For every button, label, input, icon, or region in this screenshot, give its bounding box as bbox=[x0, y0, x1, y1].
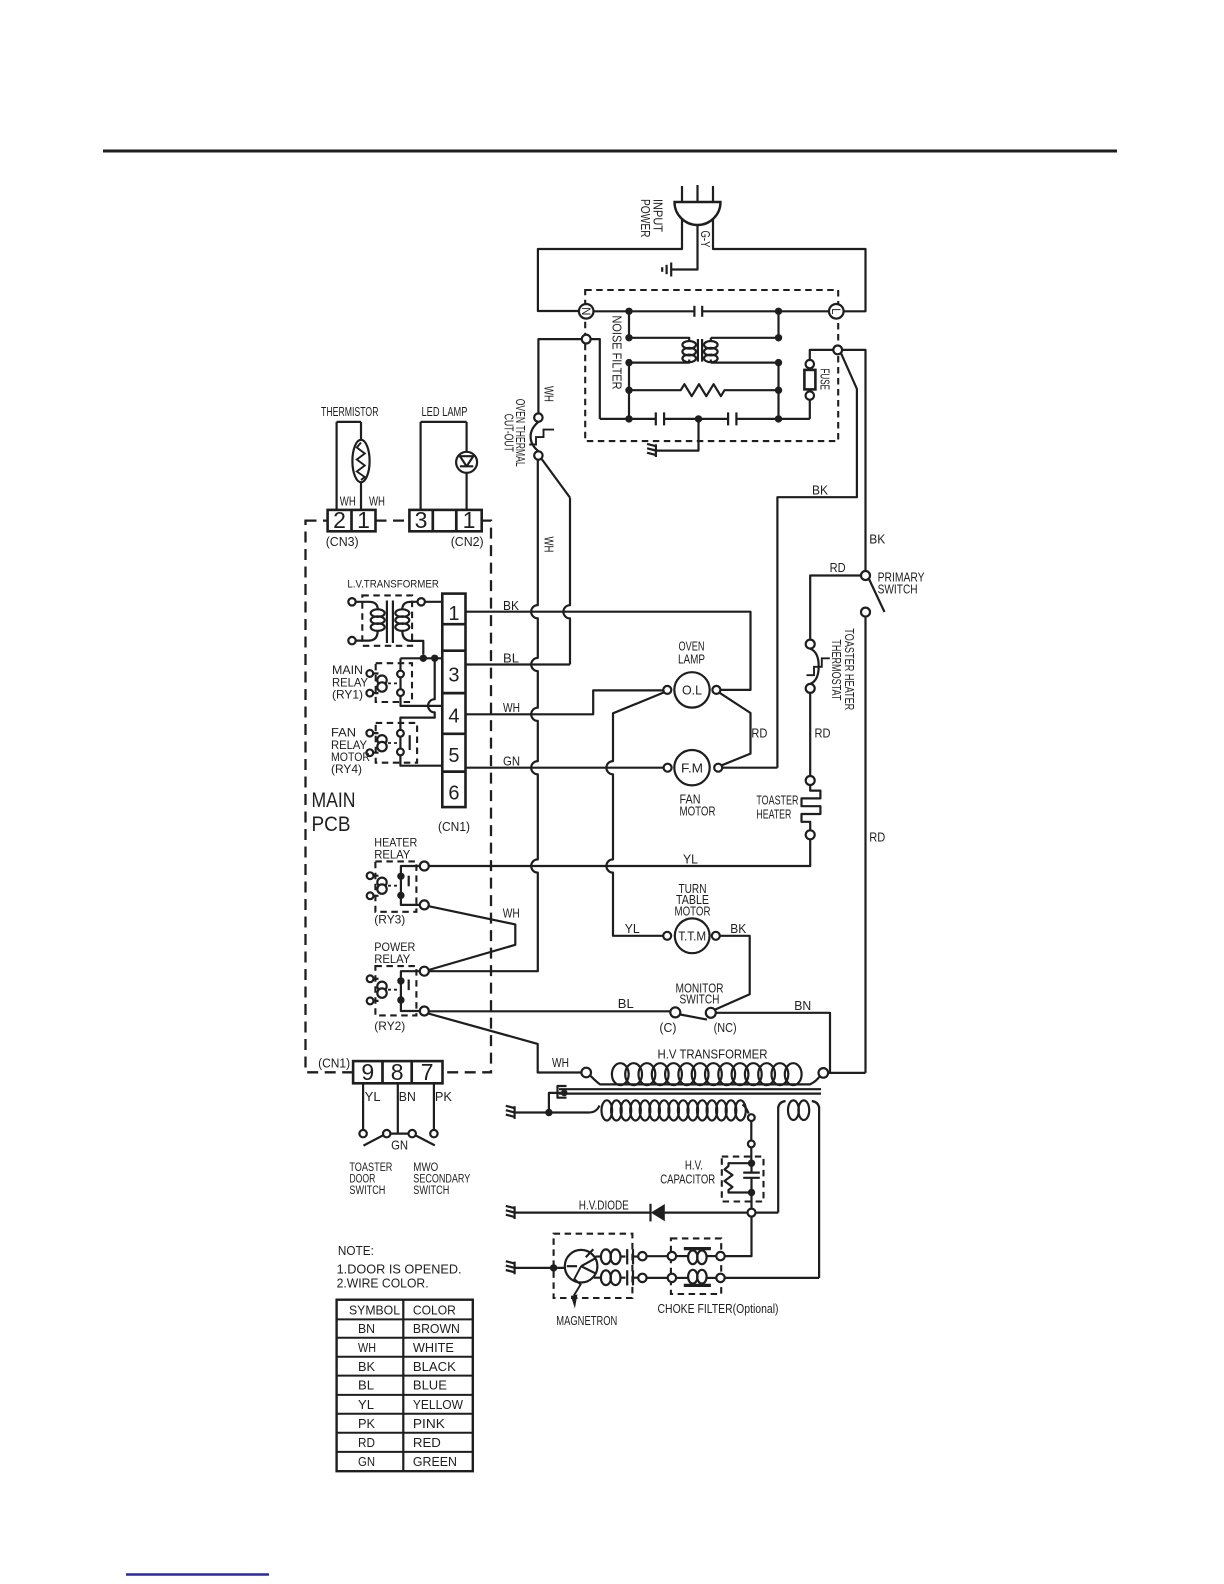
wire color table bbox=[337, 1300, 473, 1472]
choke filter top inductor bbox=[676, 1249, 716, 1265]
wire YL heater relay to toaster heater bbox=[429, 839, 810, 866]
svg-text:O.L: O.L bbox=[682, 683, 702, 698]
svg-text:BL: BL bbox=[618, 996, 634, 1011]
power relay top terminal bbox=[420, 967, 429, 976]
svg-text:BK: BK bbox=[730, 921, 746, 936]
secondary output terminals bbox=[748, 1114, 755, 1121]
wire node to fan relay contact (hops pin4 wire) bbox=[400, 658, 434, 730]
wire RD primary switch to thermostat bbox=[810, 576, 861, 640]
choke filter bottom inductor bbox=[676, 1270, 716, 1286]
svg-text:BK: BK bbox=[503, 598, 519, 613]
wire junction down to choke filter bbox=[725, 1217, 752, 1257]
noise filter dashed box bbox=[585, 290, 838, 441]
svg-text:NOTE:: NOTE: bbox=[338, 1243, 374, 1258]
node dots row1 bbox=[625, 308, 632, 315]
svg-text:WH: WH bbox=[503, 700, 520, 715]
svg-text:(RY2): (RY2) bbox=[374, 1019, 405, 1033]
svg-text:MAIN: MAIN bbox=[312, 788, 356, 812]
HV capacitor plates bbox=[743, 1163, 760, 1192]
svg-text:RED: RED bbox=[413, 1435, 441, 1450]
svg-text:1: 1 bbox=[463, 507, 476, 533]
svg-text:GN: GN bbox=[391, 1138, 408, 1153]
svg-text:WH: WH bbox=[503, 906, 520, 921]
wire oven lamp to turntable (vertical with hops) bbox=[606, 692, 665, 936]
wire GN pin5 to fan motor bbox=[466, 767, 664, 769]
svg-text:SWITCH: SWITCH bbox=[878, 581, 918, 596]
svg-text:(CN3): (CN3) bbox=[326, 534, 359, 549]
svg-text:BLUE: BLUE bbox=[413, 1378, 447, 1393]
heater relay lower terminal bbox=[420, 900, 429, 909]
wire choke bottom to filament right bbox=[725, 1277, 819, 1279]
wire L-node to primary switch (BK) bbox=[842, 350, 865, 571]
monitor switch bbox=[670, 1007, 716, 1019]
wire bottom row center to chassis ground bbox=[656, 419, 698, 451]
svg-text:MAGNETRON: MAGNETRON bbox=[556, 1313, 617, 1328]
wire WH link heater relay to power relay bbox=[429, 906, 516, 970]
svg-text:1: 1 bbox=[357, 507, 370, 533]
chassis ground noise filter bbox=[647, 444, 656, 457]
terminal L bbox=[829, 304, 844, 319]
svg-text:(RY4): (RY4) bbox=[331, 762, 362, 776]
wire RD thermostat to toaster heater bbox=[809, 693, 811, 776]
svg-text:HEATER: HEATER bbox=[756, 806, 791, 821]
wire LVT to pin1 bbox=[425, 601, 442, 603]
noise filter bottom capacitors row bbox=[600, 412, 810, 425]
svg-text:WH: WH bbox=[369, 494, 385, 509]
svg-text:4: 4 bbox=[448, 706, 459, 728]
svg-text:BK: BK bbox=[869, 531, 885, 546]
svg-text:CHOKE FILTER(Optional): CHOKE FILTER(Optional) bbox=[658, 1301, 779, 1316]
turn table motor T.T.M bbox=[663, 918, 720, 953]
chassis ground (magnetron) bbox=[506, 1261, 515, 1274]
svg-text:WH: WH bbox=[358, 1340, 376, 1355]
wire WH pin4 to oven lamp left bbox=[466, 690, 664, 714]
svg-text:CAPACITOR: CAPACITOR bbox=[660, 1172, 715, 1187]
svg-text:LAMP: LAMP bbox=[678, 651, 705, 666]
svg-text:WH: WH bbox=[541, 386, 556, 402]
wire L-node diagonal to toaster heater feed bbox=[777, 353, 857, 768]
wire node to pin3 bbox=[401, 657, 443, 659]
svg-text:1: 1 bbox=[448, 603, 459, 625]
svg-text:TOASTER: TOASTER bbox=[756, 793, 798, 808]
ground (mains earth) bbox=[662, 263, 671, 277]
wire BL pin3 bbox=[466, 663, 571, 665]
label INPUT POWER (rotated) bbox=[638, 199, 666, 238]
wire left column row1-row2 bbox=[628, 311, 630, 338]
svg-text:(NC): (NC) bbox=[714, 1020, 737, 1035]
magnetron tube bbox=[565, 1249, 598, 1308]
svg-text:COLOR: COLOR bbox=[413, 1302, 456, 1317]
svg-text:RELAY: RELAY bbox=[374, 848, 410, 862]
svg-text:YL: YL bbox=[625, 921, 640, 936]
svg-text:THERMISTOR: THERMISTOR bbox=[321, 404, 379, 419]
svg-text:DOOR: DOOR bbox=[349, 1174, 375, 1186]
thermistor wires bbox=[337, 422, 361, 510]
led lamp wires bbox=[421, 422, 467, 510]
wire RD oven lamp to fan motor bbox=[720, 693, 751, 765]
svg-text:BROWN: BROWN bbox=[413, 1321, 460, 1336]
svg-text:7: 7 bbox=[421, 1059, 434, 1085]
diode row junction bbox=[748, 1209, 756, 1217]
svg-text:(CN1): (CN1) bbox=[438, 819, 470, 834]
wire BN monitor NC to HV transformer bbox=[716, 1013, 830, 1073]
led lamp symbol bbox=[456, 452, 477, 473]
magnetron heater terminals bbox=[638, 1252, 646, 1260]
thermistor body bbox=[352, 440, 369, 482]
toaster door switch bbox=[359, 1130, 390, 1146]
svg-text:(C): (C) bbox=[659, 1020, 676, 1035]
svg-text:BK: BK bbox=[358, 1359, 375, 1374]
svg-text:GN: GN bbox=[358, 1454, 375, 1469]
top rule bbox=[103, 150, 1117, 153]
svg-text:WH: WH bbox=[541, 537, 556, 553]
svg-text:2: 2 bbox=[333, 507, 346, 533]
svg-text:GREEN: GREEN bbox=[413, 1454, 457, 1469]
connector CN3 bbox=[326, 507, 376, 549]
wire N-node to oven thermal cutout bbox=[538, 339, 581, 413]
wire BK pin1 to oven lamp bbox=[466, 612, 751, 690]
svg-text:LED LAMP: LED LAMP bbox=[422, 404, 468, 419]
fuse bbox=[804, 350, 833, 419]
GN common bar bbox=[390, 1132, 408, 1134]
wire columns row3-row4-row5 bbox=[628, 363, 630, 419]
mwo secondary switch bbox=[409, 1130, 438, 1146]
svg-text:3: 3 bbox=[448, 665, 459, 687]
wires magnetron to choke filter bbox=[647, 1256, 668, 1278]
svg-text:PK: PK bbox=[358, 1416, 375, 1431]
svg-text:F.M: F.M bbox=[681, 760, 703, 775]
svg-text:3: 3 bbox=[415, 507, 428, 533]
svg-text:SWITCH: SWITCH bbox=[413, 1185, 449, 1197]
svg-text:GN: GN bbox=[503, 754, 520, 769]
wire N-node to bottom row bbox=[591, 339, 600, 419]
svg-text:RD: RD bbox=[751, 726, 767, 741]
svg-text:BK: BK bbox=[812, 483, 828, 498]
fan motor F.M bbox=[664, 750, 723, 785]
svg-text:WHITE: WHITE bbox=[413, 1340, 454, 1355]
svg-text:PCB: PCB bbox=[312, 812, 351, 836]
fan relay RY4 bbox=[366, 723, 442, 766]
svg-text:SWITCH: SWITCH bbox=[680, 992, 720, 1007]
svg-text:PINK: PINK bbox=[413, 1416, 445, 1431]
magnetron filament row1 bbox=[596, 1249, 639, 1264]
wire pin8 to GN bar bbox=[397, 1083, 399, 1133]
svg-text:BLACK: BLACK bbox=[413, 1359, 456, 1374]
svg-text:RELAY: RELAY bbox=[374, 952, 410, 966]
svg-text:FUSE: FUSE bbox=[818, 369, 833, 391]
oven thermal cut-out bbox=[529, 413, 570, 497]
HV filament winding bbox=[778, 1100, 819, 1278]
svg-text:9: 9 bbox=[361, 1059, 374, 1085]
wire ground to magnetron bbox=[515, 1267, 565, 1269]
svg-text:PK: PK bbox=[435, 1089, 452, 1104]
svg-text:BN: BN bbox=[399, 1089, 416, 1104]
wire fan motor to toaster heater feed bbox=[722, 767, 777, 769]
svg-text:THERMOSTAT: THERMOSTAT bbox=[829, 639, 844, 700]
svg-text:YL: YL bbox=[683, 852, 698, 867]
toaster heater element bbox=[802, 776, 821, 839]
svg-text:BN: BN bbox=[794, 998, 811, 1013]
svg-text:BL: BL bbox=[358, 1378, 374, 1393]
svg-text:RD: RD bbox=[358, 1435, 375, 1450]
power relay bottom terminal bbox=[420, 1007, 429, 1016]
chassis ground (HV diode) bbox=[506, 1206, 515, 1219]
svg-text:MWO: MWO bbox=[413, 1162, 438, 1174]
svg-text:CUT-OUT: CUT-OUT bbox=[502, 414, 517, 452]
svg-text:1.DOOR IS OPENED.: 1.DOOR IS OPENED. bbox=[337, 1262, 462, 1277]
svg-text:POWER: POWER bbox=[638, 199, 653, 238]
L.V. transformer dashed box bbox=[362, 595, 412, 645]
svg-text:L.V.TRANSFORMER: L.V.TRANSFORMER bbox=[347, 579, 439, 591]
heater relay RY3 bbox=[367, 861, 420, 911]
oven lamp O.L bbox=[663, 672, 720, 707]
terminal node on dashed edge (L side) bbox=[833, 346, 842, 355]
svg-text:(RY1): (RY1) bbox=[332, 688, 363, 702]
svg-text:RD: RD bbox=[830, 560, 846, 575]
magnetron dashed box bbox=[554, 1234, 633, 1298]
primary switch bbox=[861, 571, 885, 1073]
svg-text:T.T.M: T.T.M bbox=[678, 929, 706, 943]
terminal N bbox=[579, 304, 594, 319]
svg-text:TOASTER: TOASTER bbox=[349, 1162, 392, 1174]
svg-text:RD: RD bbox=[815, 726, 831, 741]
wire WH power relay to HV transformer primary bbox=[428, 1014, 581, 1073]
svg-text:NOISE FILTER: NOISE FILTER bbox=[610, 316, 625, 390]
svg-text:BL: BL bbox=[503, 650, 519, 665]
noise filter row1 capacitor C-line bbox=[593, 306, 829, 317]
wire WH power relay to oven thermal cutout (vertical with hops) bbox=[429, 460, 538, 972]
L.V. transformer terminals bbox=[348, 598, 355, 605]
svg-text:5: 5 bbox=[448, 745, 459, 767]
wire BL power relay to monitor switch C bbox=[429, 1010, 671, 1012]
chassis ground (HV secondary) bbox=[506, 1106, 515, 1119]
HV capacitor dashed box bbox=[722, 1157, 764, 1202]
noise filter common-mode choke bbox=[629, 338, 779, 363]
node dots bbox=[420, 655, 427, 662]
noise filter resistor row bbox=[629, 384, 779, 396]
HV transformer primary terminals bbox=[581, 1068, 591, 1078]
wire pin7 to mwo switch bbox=[433, 1083, 435, 1130]
main relay RY1 bbox=[366, 658, 442, 706]
terminal node on dashed edge (N side) bbox=[582, 335, 591, 344]
svg-text:2.WIRE COLOR.: 2.WIRE COLOR. bbox=[337, 1276, 429, 1291]
HV capacitor bleeder resistor bbox=[725, 1163, 752, 1192]
svg-text:SECONDARY: SECONDARY bbox=[413, 1174, 470, 1186]
svg-text:MOTOR: MOTOR bbox=[675, 903, 711, 918]
main PCB dashed box bbox=[306, 521, 492, 1073]
wire primary right to RD vertical bbox=[828, 1072, 865, 1074]
input power plug bbox=[675, 185, 721, 225]
svg-text:RD: RD bbox=[869, 829, 885, 844]
svg-text:YELLOW: YELLOW bbox=[413, 1397, 464, 1412]
HV diode bbox=[515, 1204, 748, 1222]
wire cap to diode row bbox=[750, 1193, 752, 1209]
svg-text:SYMBOL: SYMBOL bbox=[349, 1302, 400, 1317]
HV transformer secondary winding bbox=[549, 1100, 749, 1120]
wire core to chassis ground bbox=[515, 1093, 564, 1113]
bottom blue rule bbox=[126, 1573, 269, 1576]
wire plug left to N side bbox=[538, 220, 682, 312]
toaster heater thermostat bbox=[806, 640, 830, 693]
svg-text:8: 8 bbox=[391, 1059, 404, 1085]
connector CN1 (bottom 9 8 7) bbox=[353, 1059, 442, 1085]
svg-text:(RY3): (RY3) bbox=[374, 912, 405, 926]
svg-text:H.V TRANSFORMER: H.V TRANSFORMER bbox=[658, 1047, 768, 1062]
heater relay output terminal bbox=[420, 862, 429, 871]
magnetron filament row2 bbox=[594, 1270, 638, 1285]
wire TTM to monitor switch NC bbox=[714, 936, 750, 1010]
HV transformer primary winding bbox=[590, 1063, 819, 1085]
choke filter dashed box bbox=[671, 1238, 721, 1294]
node dots row2/row3 bbox=[625, 334, 632, 341]
svg-text:(CN1): (CN1) bbox=[318, 1056, 350, 1071]
wire plug right to L side bbox=[713, 220, 866, 312]
svg-text:H.V.DIODE: H.V.DIODE bbox=[579, 1197, 629, 1212]
wire cutout blade to BL pin3 (hops BK) bbox=[563, 498, 570, 665]
svg-text:N: N bbox=[579, 307, 591, 315]
power relay RY2 bbox=[367, 966, 420, 1015]
connector CN2 bbox=[409, 507, 483, 549]
svg-text:L: L bbox=[829, 308, 841, 315]
core ground node bbox=[561, 1090, 568, 1097]
svg-text:MOTOR: MOTOR bbox=[680, 804, 716, 819]
HV transformer core bbox=[558, 1086, 822, 1098]
svg-text:YL: YL bbox=[358, 1397, 374, 1412]
connector CN1 (top) bbox=[442, 594, 465, 808]
svg-text:G-Y: G-Y bbox=[698, 231, 713, 248]
svg-text:6: 6 bbox=[448, 783, 459, 805]
svg-text:(CN2): (CN2) bbox=[451, 534, 484, 549]
wire G-Y to ground bbox=[672, 225, 698, 270]
svg-text:SWITCH: SWITCH bbox=[349, 1185, 385, 1197]
svg-text:BN: BN bbox=[358, 1321, 375, 1336]
svg-text:YL: YL bbox=[365, 1089, 381, 1104]
wire pin9 to toaster door switch bbox=[362, 1083, 364, 1130]
svg-text:WH: WH bbox=[552, 1055, 569, 1070]
svg-text:H.V.: H.V. bbox=[685, 1157, 703, 1172]
L.V. transformer windings bbox=[356, 601, 424, 655]
